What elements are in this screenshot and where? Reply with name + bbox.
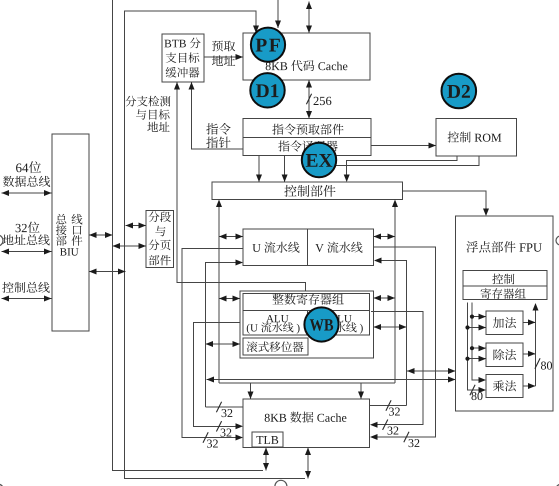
box FPU 浮点部件 xyxy=(456,216,554,411)
wire control unit to FPU top xyxy=(403,191,487,212)
box FPU multiplier 乘法 xyxy=(486,375,523,398)
node D2 pipeline stage xyxy=(442,74,477,109)
scan artifact bottom left corner xyxy=(0,484,4,486)
label 80 (FPU right) xyxy=(541,362,552,370)
wire v2 tap to adder xyxy=(472,316,486,318)
box control ROM xyxy=(436,119,517,157)
box FPU adder 加法 xyxy=(486,311,523,335)
wire U-bus drop into data cache top left xyxy=(250,383,252,399)
wire U-bus bottom rail xyxy=(219,382,395,384)
wire adder output to result bus xyxy=(523,321,536,323)
wire FPU link lower: x=205.5 bus to FPU left (double arrow) xyxy=(207,379,456,381)
wire double arrow outer bus to paging unit xyxy=(113,245,147,247)
wire double arrow register file left to rail xyxy=(219,298,240,300)
node PF pipeline stage xyxy=(251,28,285,62)
wire decoder outputs down into control unit (two arrows) xyxy=(258,156,260,183)
wire v1 tap to adder xyxy=(468,327,487,329)
wire 256-bit bus code cache to instruction prefetch unit xyxy=(308,80,310,119)
label 32位地址总线 xyxy=(16,222,40,233)
label 256 xyxy=(314,97,332,105)
wire 64-bit data bus double arrow xyxy=(2,192,52,194)
wire register file output to data cache right (via x=423) xyxy=(371,312,423,425)
label 指令指针 xyxy=(206,123,230,135)
wire x=406.5 bus arrow into V pipeline right xyxy=(378,261,407,406)
box barrel shifter 滚式移位器 xyxy=(243,338,308,355)
wire control ROM output 1 down-left into control unit xyxy=(347,156,457,178)
box control unit 控制部件 xyxy=(212,182,403,200)
box 8KB code cache xyxy=(243,33,370,80)
label 32 (cache right top) xyxy=(389,408,400,416)
box ALU row (U and V) xyxy=(243,311,370,336)
box BTB branch target buffer xyxy=(162,34,204,82)
wire FPU link upper: x=406.5 bus to FPU left (double arrow) xyxy=(407,370,456,372)
box TLB xyxy=(252,432,283,447)
wire x=205.5 bus to data cache left top line xyxy=(206,406,244,408)
wire 32-bit address bus double arrow xyxy=(2,251,52,253)
label 32 (cache left lower) xyxy=(207,440,218,448)
wire branch-detect feedback: integer unit top to BTB bottom (arrow up) xyxy=(177,82,305,292)
box segmentation and paging unit 分段与分页部件 xyxy=(146,211,174,268)
wire decoder to control ROM arrow xyxy=(371,145,436,147)
label 32 (cache left middle) xyxy=(221,429,232,437)
label 64位数据总线 xyxy=(16,161,41,173)
wire U-bus drop into data cache top right xyxy=(360,383,362,399)
scan artifact bottom right corner xyxy=(555,484,559,486)
label 32 (cache right lower) xyxy=(409,439,420,447)
wire double arrow register file right to rail xyxy=(374,297,396,299)
node D1 pipeline stage xyxy=(250,73,284,107)
junction dot v1-adder xyxy=(465,325,469,329)
wire x=205.5 bus arrow into U pipeline left xyxy=(206,263,240,408)
wire v2 tap to divider xyxy=(472,347,486,349)
node EX pipeline stage xyxy=(302,143,336,177)
wire U-bus right rail up into control unit xyxy=(394,204,396,384)
wire double arrow barrel shifter to x=205.5 bus xyxy=(206,343,241,345)
wire FPU operand bus v2 (inner left) xyxy=(472,303,482,381)
wire double arrow BIU to outer bus x=112.5 xyxy=(89,234,113,236)
wire data cache bottom to outer bus (double arrow 2) xyxy=(307,448,309,479)
wire ALU(U) output to data cache left (via x=193.5) xyxy=(194,323,244,427)
box integer unit outer frame xyxy=(240,291,374,358)
wire left outer bus (64-bit data path) vertical x=112.5 down to data cache bottom xyxy=(113,0,264,471)
wire prefetch-address arrow BTB to code cache xyxy=(204,56,243,58)
wire multiplier output to result bus xyxy=(523,385,536,387)
label 32 (cache right middle) xyxy=(388,427,399,435)
wire U pipeline output to data cache left (via x=182) xyxy=(182,249,243,438)
label 80 (FPU lower left) xyxy=(471,392,482,400)
wire double arrow inner bus to paging unit xyxy=(126,225,147,227)
box instruction prefetch unit / instruction decoder xyxy=(243,119,371,156)
box 8KB data cache xyxy=(243,399,370,448)
node WB pipeline stage xyxy=(304,307,338,341)
scan artifact partial circle bottom center xyxy=(275,480,287,486)
junction dot v2-divider xyxy=(470,346,474,350)
wire x=406.5 bus to data cache right top line xyxy=(370,405,407,407)
wire decoder to BTB bottom (arrow up) xyxy=(192,82,244,149)
label 分支检测与目标地址 xyxy=(125,96,170,107)
wire vertical stub x=278 from top edge into PF / code cache xyxy=(277,0,279,28)
wire double arrow BIU to inner bus x=124.5 xyxy=(89,271,126,273)
wire data cache bottom to outer bus (double arrow 1) xyxy=(265,448,267,471)
scan artifact partial circle left edge xyxy=(0,235,3,246)
wire control ROM output 2 down-left to EX node xyxy=(336,156,479,166)
wire double arrow ALU(V) right to x=406.5 bus xyxy=(374,326,407,328)
label 32 (cache left top) xyxy=(222,409,233,417)
wire vertical double arrow x=309 top edge to code cache top xyxy=(308,2,310,34)
wire double arrow V pipeline right to rail xyxy=(374,236,396,238)
wire double arrow U pipeline left to rail xyxy=(219,236,243,238)
box FPU divider 除法 xyxy=(486,343,523,367)
wire U-bus left rail up into control unit xyxy=(218,204,220,384)
box FPU control / register file xyxy=(463,271,547,300)
wire control bus double arrow xyxy=(2,298,52,300)
wire CPU top bus: down into code cache top, up over to left edge, down to bottom, right to data cache xyxy=(125,11,306,479)
junction dot v1-divider xyxy=(465,357,469,361)
scan artifact partial circle right edge near FPU xyxy=(556,236,559,245)
junction dot v2-adder xyxy=(470,315,474,319)
wire v1 tap to divider xyxy=(468,358,487,360)
label 预取地址 xyxy=(212,40,235,51)
wire FPU operand bus v1 (outer left) xyxy=(468,303,483,391)
box integer register file 整数寄存器组 xyxy=(243,294,370,311)
box U pipeline / V pipeline xyxy=(243,229,374,266)
wire V pipeline output to data cache right (via x=435.5) xyxy=(374,247,436,437)
label 控制总线 xyxy=(2,282,49,293)
box bus interface unit BIU 总线接口部件 xyxy=(52,134,89,331)
wire divider output to result bus xyxy=(523,353,536,355)
wire FPU result bus right vertical with up arrow to register file xyxy=(535,307,537,386)
